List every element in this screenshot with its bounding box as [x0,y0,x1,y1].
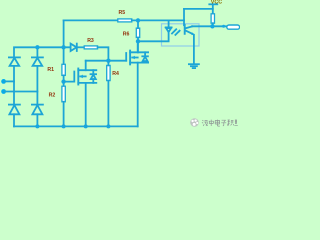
node bus junction dot Q1 source [84,124,88,128]
drain up wire to R6 node [137,41,139,52]
gate channel bar [129,51,131,65]
power VCC symbol [209,3,217,5]
svg-text:VCC: VCC [211,0,222,5]
body diode DQ1 [91,73,97,75]
light arrows [172,29,180,35]
diode D4 [32,105,43,115]
resistor R7 pull-up [211,14,214,23]
emitter down wire [193,35,195,64]
phototransistor of optocoupler [184,9,194,64]
node R7 out dot [210,24,214,28]
resistor R4 [107,65,110,80]
port OUT pill [227,25,240,29]
terminal IN1 dot [1,79,6,84]
resistor R2 [62,86,65,102]
wire drain rail y=60.7 [86,60,127,62]
watermark text glyph blobs [202,120,238,127]
wire R3 to R4 top corner [98,47,109,60]
wire R6 bottom lead to Q2 drain [137,38,139,53]
svg-text:R6: R6 [123,31,130,37]
substrate arrow [132,57,138,59]
drain line [78,69,96,71]
emitter diagonal with arrow [186,31,193,34]
diode D2 [32,57,43,66]
source down wire to bus end [137,63,139,127]
svg-text:R1: R1 [47,67,54,73]
wire R1 bottom to gate node dot [63,75,65,86]
wire gate lead from node [64,72,75,82]
svg-text:R5: R5 [119,10,126,16]
wire col2 x=37.4 between D2 and D4 [36,66,38,105]
wire D4 to bus [36,114,38,126]
wire IN2 across to col2 [4,91,38,93]
node bus junction dot R2 [62,124,66,128]
substrate arrow [80,75,86,77]
wire collector to pull-up and out [192,25,227,27]
source line [78,82,96,84]
base lead down from top [183,9,185,25]
resistor R6 [136,28,139,37]
node bus junction dot R4 [106,124,110,128]
body diode DQ2 [142,55,148,57]
wire ground bus [14,125,138,127]
resistor R5 [118,19,132,22]
node gate node dot [61,79,65,83]
terminal IN2 dot [1,89,6,94]
node R4 top dot [106,59,110,63]
collector diagonal [186,26,193,28]
transistor Q2 MOSFET [126,41,148,126]
wire R6 top lead [137,20,139,28]
svg-text:R3: R3 [87,38,94,44]
gate channel bar [77,69,79,85]
diode D1 [9,57,20,66]
svg-text:R2: R2 [49,92,56,98]
wire R4 bottom lead to bus [107,81,109,127]
wire R2 bottom to bus [63,102,65,127]
wire col3 top corner and down to rail [63,20,65,64]
wire IN1 to left column [4,80,14,82]
svg-text:R4: R4 [112,71,119,77]
wire D3 to bus [13,114,15,126]
optocoupler U1 box [162,24,200,46]
ground [189,64,199,68]
source down wire to bus [85,83,87,127]
resistor R3 [84,46,97,49]
drain line [130,51,148,53]
wire left column x=14 between D1 and D3 [13,66,15,105]
wire vcc branch y=8.9 [184,8,213,10]
node junction dot D2 top [35,45,39,49]
node bus junction dot D4 [35,124,39,128]
wire gate lead from rail corner [125,53,127,61]
diode D3 [9,105,20,115]
wire D2 top stub [36,47,38,57]
node out dot 2 [222,25,225,28]
node R6 bottom dot [136,39,140,43]
wire R5 to opto led [132,19,184,21]
base bar [184,25,186,34]
node R6 top dot [136,18,140,22]
drain up wire [85,61,87,70]
resistor R1 [62,64,65,75]
wire R7 bottom [212,23,214,26]
source line [130,62,148,64]
node junction dot R1 top [61,45,65,49]
LED of optocoupler [138,20,172,41]
wire top feed y=20.4 [64,19,118,21]
logo watermark [190,118,199,127]
wire R4 top lead [107,61,109,66]
transistor Q1 MOSFET [64,61,97,127]
diode D5 horizontal [71,44,85,51]
wire top rail y=47.3 from left corner to D5 [14,47,71,57]
